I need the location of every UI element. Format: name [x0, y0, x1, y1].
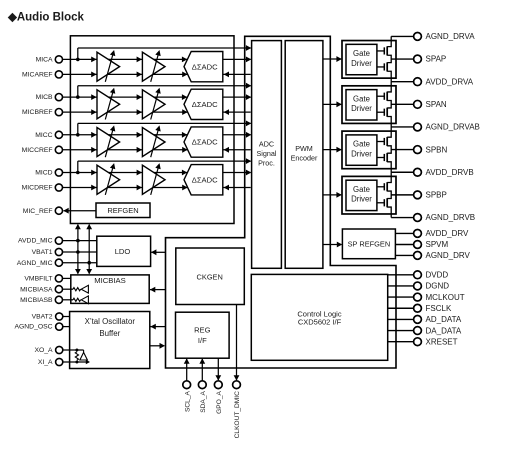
- svg-text:FSCLK: FSCLK: [426, 304, 452, 313]
- svg-text:MICC: MICC: [35, 132, 52, 139]
- svg-text:XI_A: XI_A: [38, 359, 53, 366]
- svg-text:MICDREF: MICDREF: [22, 185, 53, 192]
- svg-text:MICBIASA: MICBIASA: [20, 286, 53, 293]
- svg-text:MICBREF: MICBREF: [22, 109, 53, 116]
- svg-text:Gate: Gate: [353, 140, 370, 149]
- svg-text:VMBFILT: VMBFILT: [24, 276, 52, 283]
- svg-text:Proc.: Proc.: [258, 159, 275, 168]
- svg-text:AGND_MIC: AGND_MIC: [17, 260, 53, 267]
- svg-text:AGND_DRV: AGND_DRV: [426, 251, 471, 260]
- svg-text:Encoder: Encoder: [291, 153, 318, 162]
- svg-text:SDA_A: SDA_A: [200, 391, 207, 413]
- svg-text:AGND_DRVA: AGND_DRVA: [426, 32, 476, 41]
- svg-text:VBAT1: VBAT1: [32, 249, 53, 256]
- svg-text:SP REFGEN: SP REFGEN: [348, 240, 391, 249]
- svg-text:ΔΣADC: ΔΣADC: [192, 100, 218, 109]
- svg-text:SPVM: SPVM: [426, 240, 449, 249]
- svg-text:MICD: MICD: [35, 170, 52, 177]
- svg-text:AD_DATA: AD_DATA: [426, 315, 462, 324]
- svg-text:MICA: MICA: [36, 57, 53, 64]
- svg-text:AGND_DRVB: AGND_DRVB: [426, 213, 476, 222]
- svg-text:ADC: ADC: [259, 139, 274, 148]
- svg-text:MICBIAS: MICBIAS: [94, 276, 126, 285]
- svg-text:XRESET: XRESET: [426, 337, 458, 346]
- svg-text:MICB: MICB: [36, 94, 53, 101]
- svg-text:DGND: DGND: [426, 282, 450, 291]
- svg-text:Gate: Gate: [353, 49, 370, 58]
- svg-text:LDO: LDO: [115, 247, 131, 256]
- svg-text:AVDD_MIC: AVDD_MIC: [18, 238, 53, 245]
- svg-text:XO_A: XO_A: [34, 347, 53, 354]
- svg-text:CLKOUT_DMIC: CLKOUT_DMIC: [234, 391, 241, 438]
- svg-text:Driver: Driver: [351, 195, 372, 204]
- svg-text:SCL_A: SCL_A: [184, 391, 191, 412]
- svg-text:X’tal Oscillator: X’tal Oscillator: [85, 317, 136, 326]
- svg-text:◆Audio Block: ◆Audio Block: [7, 12, 85, 24]
- svg-text:MICBIASB: MICBIASB: [20, 297, 53, 304]
- svg-text:VBAT2: VBAT2: [32, 314, 53, 321]
- svg-text:Driver: Driver: [351, 149, 372, 158]
- svg-text:SPBP: SPBP: [426, 191, 447, 200]
- svg-text:MICCREF: MICCREF: [22, 147, 53, 154]
- svg-text:AVDD_DRV: AVDD_DRV: [426, 229, 469, 238]
- svg-text:Gate: Gate: [353, 94, 370, 103]
- svg-text:Driver: Driver: [351, 59, 372, 68]
- svg-text:SPAP: SPAP: [426, 55, 447, 64]
- svg-text:MIC_REF: MIC_REF: [23, 208, 53, 215]
- svg-text:ΔΣADC: ΔΣADC: [192, 62, 218, 71]
- svg-text:ΔΣADC: ΔΣADC: [192, 138, 218, 147]
- svg-text:DVDD: DVDD: [426, 271, 449, 280]
- svg-text:AGND_DRVAB: AGND_DRVAB: [426, 123, 480, 132]
- svg-text:AVDD_DRVA: AVDD_DRVA: [426, 77, 474, 86]
- svg-text:Driver: Driver: [351, 104, 372, 113]
- svg-text:ΔΣADC: ΔΣADC: [192, 175, 218, 184]
- svg-text:GPO_A: GPO_A: [216, 391, 223, 414]
- svg-text:DA_DATA: DA_DATA: [426, 326, 462, 335]
- svg-text:Buffer: Buffer: [99, 329, 120, 338]
- svg-text:REG: REG: [194, 326, 211, 335]
- svg-text:Signal: Signal: [257, 149, 277, 158]
- svg-text:CKGEN: CKGEN: [197, 272, 223, 281]
- svg-text:PWM: PWM: [295, 144, 313, 153]
- svg-text:Gate: Gate: [353, 185, 370, 194]
- svg-text:AGND_OSC: AGND_OSC: [14, 324, 52, 331]
- svg-text:I/F: I/F: [198, 336, 207, 345]
- svg-text:SPBN: SPBN: [426, 145, 448, 154]
- svg-text:SPAN: SPAN: [426, 100, 447, 109]
- svg-text:AVDD_DRVB: AVDD_DRVB: [426, 168, 474, 177]
- svg-text:MCLKOUT: MCLKOUT: [426, 293, 465, 302]
- svg-text:REFGEN: REFGEN: [107, 206, 138, 215]
- svg-text:CXD5602 I/F: CXD5602 I/F: [298, 318, 342, 327]
- svg-text:MICAREF: MICAREF: [22, 72, 53, 79]
